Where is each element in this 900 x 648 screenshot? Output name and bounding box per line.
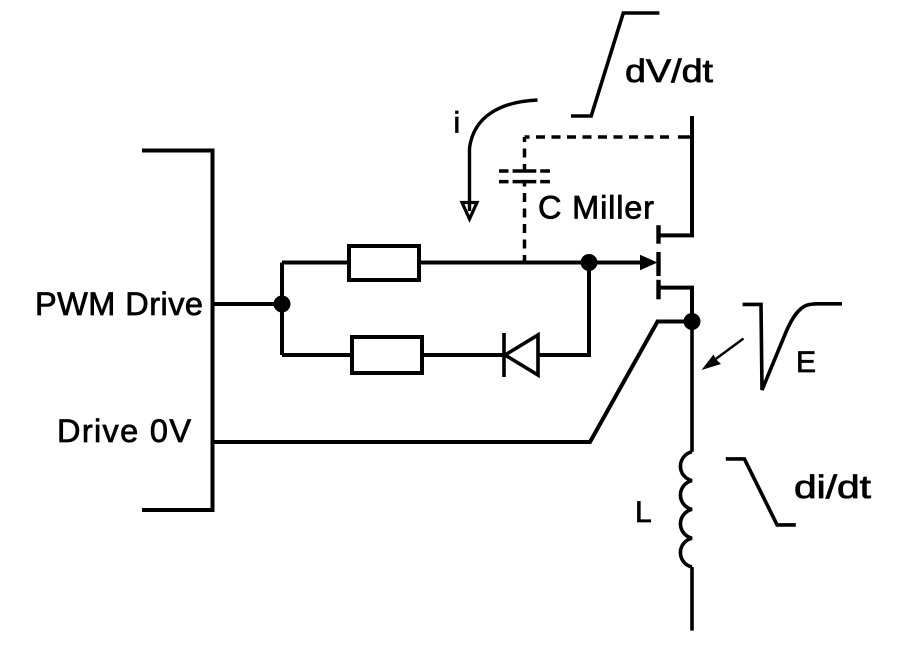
node: gate node [581,254,598,271]
transistor Q1 channel bar [656,225,660,299]
wire: drive source bracket [142,151,213,511]
wire: bottom branch into R2 [282,353,352,357]
wire: R1 to gate node [419,261,589,265]
current arrow i [462,100,538,219]
resistor R2 [352,337,422,373]
transistor Q1 drain lead [659,116,693,235]
wire: top branch into R1 [282,261,349,265]
svg-text:i: i [454,107,461,140]
waveform di/dt [726,459,796,525]
svg-text:C Miller: C Miller [538,190,654,226]
wire: gate node to MOSFET gate [589,261,642,265]
wire: diode to riser [538,263,589,356]
wire: R2 to diode [422,353,504,357]
diode D1 [504,333,538,377]
svg-text:Drive 0V: Drive 0V [57,413,191,449]
transistor Q1 source lead [659,288,693,322]
svg-text:L: L [635,496,652,529]
svg-text:di/dt: di/dt [794,469,871,505]
svg-text:PWM Drive: PWM Drive [35,286,203,322]
wire: dashed Miller connection [525,137,693,262]
svg-text:dV/dt: dV/dt [625,53,713,89]
resistor R1 [349,246,419,280]
waveform dV/dt [571,13,659,116]
svg-text:E: E [796,346,816,379]
transistor Q1 gate arrow [640,255,658,270]
waveform E [743,304,842,390]
wire: branch riser [280,263,284,356]
wire: Drive 0V return [213,322,693,443]
inductor L [680,322,692,631]
node: PWM junction [274,296,291,313]
arrow to switch node [702,339,744,371]
capacitor C Miller plates [499,171,550,182]
wire: PWM drive lead [213,302,283,306]
node: switch node [684,313,701,330]
